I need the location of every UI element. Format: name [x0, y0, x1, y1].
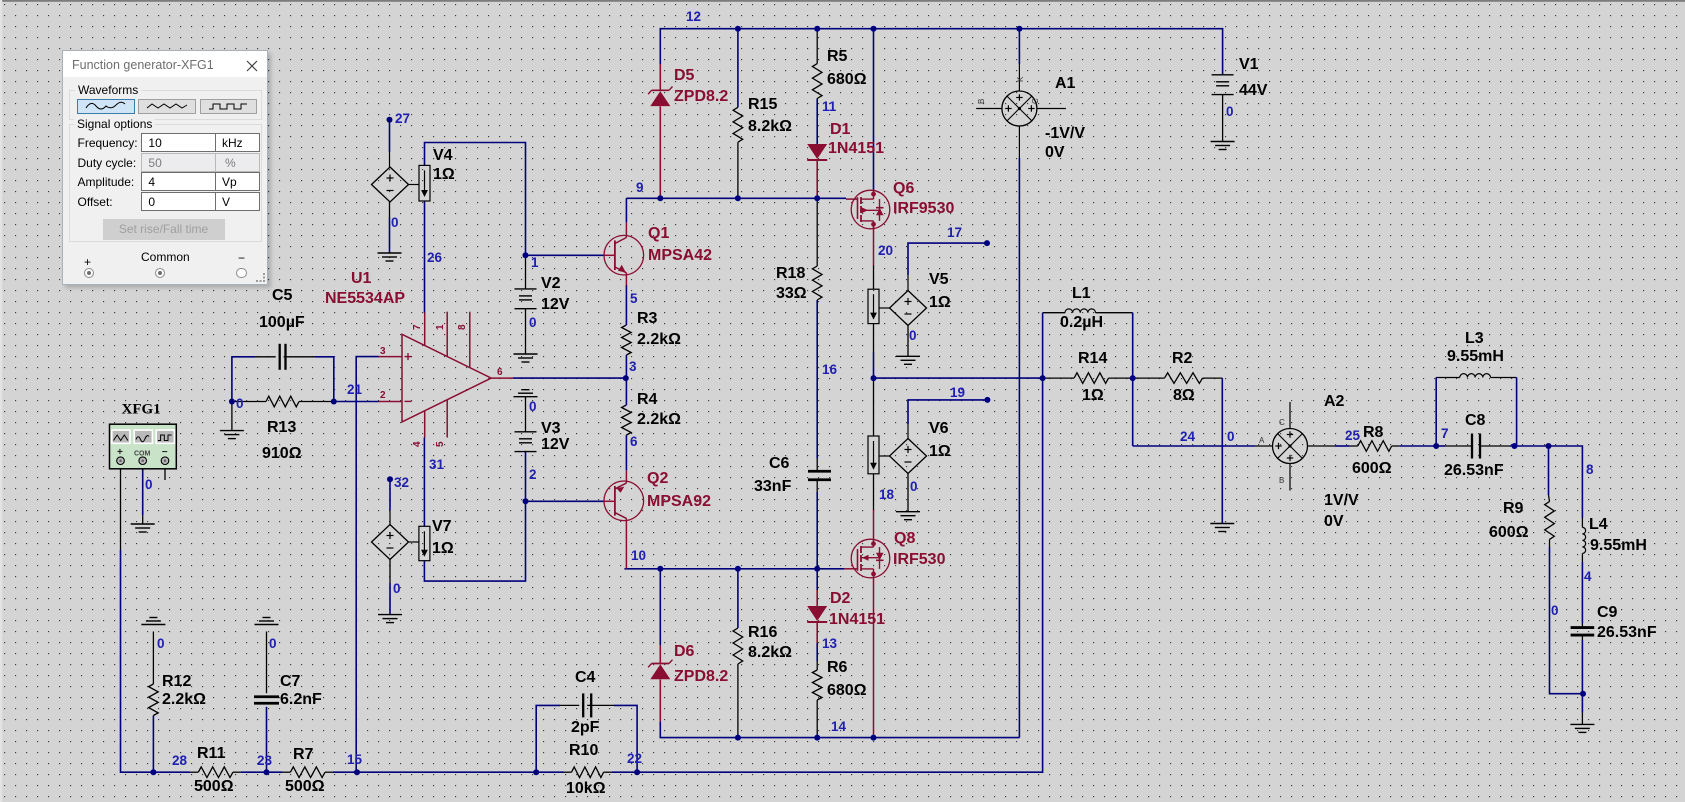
svg-text:14: 14: [831, 719, 847, 734]
svg-text:R10: R10: [569, 742, 598, 759]
svg-text:Q8: Q8: [894, 530, 915, 547]
svg-text:9.55mH: 9.55mH: [1447, 348, 1504, 365]
svg-text:0: 0: [909, 328, 917, 343]
svg-text:8Ω: 8Ω: [1173, 387, 1195, 404]
svg-text:26.53nF: 26.53nF: [1444, 462, 1504, 479]
svg-text:0.2µH: 0.2µH: [1060, 314, 1103, 331]
svg-text:4: 4: [412, 441, 423, 447]
svg-text:R4: R4: [637, 391, 658, 408]
svg-text:D5: D5: [674, 67, 695, 84]
svg-text:19: 19: [950, 385, 965, 400]
svg-text:B: B: [1279, 476, 1284, 485]
svg-text:R7: R7: [293, 746, 314, 763]
svg-text:33nF: 33nF: [754, 478, 792, 495]
svg-text:18: 18: [879, 487, 895, 502]
svg-text:C6: C6: [769, 455, 790, 472]
svg-text:21: 21: [347, 382, 363, 397]
svg-text:0: 0: [269, 636, 277, 651]
svg-text:K: K: [1016, 76, 1025, 82]
svg-text:0: 0: [145, 477, 153, 492]
svg-text:NE5534AP: NE5534AP: [325, 290, 405, 307]
svg-text:C5: C5: [272, 287, 293, 304]
svg-text:0V: 0V: [1324, 513, 1344, 530]
svg-text:2: 2: [529, 467, 537, 482]
svg-text:2: 2: [380, 390, 386, 401]
svg-text:A2: A2: [1324, 393, 1345, 410]
svg-text:C7: C7: [280, 673, 301, 690]
svg-text:7: 7: [1441, 426, 1449, 441]
svg-text:R9: R9: [1503, 500, 1524, 517]
svg-text:C4: C4: [575, 669, 596, 686]
svg-text:1Ω: 1Ω: [1082, 387, 1104, 404]
svg-text:1V/V: 1V/V: [1324, 492, 1359, 509]
svg-text:26: 26: [427, 250, 443, 265]
svg-text:0: 0: [157, 636, 165, 651]
svg-text:0: 0: [236, 396, 244, 411]
svg-text:IRF9530: IRF9530: [893, 200, 954, 217]
svg-text:26.53nF: 26.53nF: [1597, 624, 1657, 641]
svg-text:C9: C9: [1597, 604, 1618, 621]
svg-text:V3: V3: [541, 420, 561, 437]
svg-text:R5: R5: [827, 48, 848, 65]
svg-text:2.2kΩ: 2.2kΩ: [162, 691, 206, 708]
svg-text:10: 10: [631, 548, 646, 563]
svg-text:33Ω: 33Ω: [776, 285, 807, 302]
svg-text:5: 5: [435, 441, 446, 447]
svg-text:9.55mH: 9.55mH: [1590, 537, 1647, 554]
svg-text:0: 0: [529, 399, 537, 414]
svg-text:22: 22: [627, 751, 642, 766]
svg-text:L4: L4: [1589, 516, 1608, 533]
svg-text:9: 9: [636, 180, 644, 195]
svg-text:A: A: [1259, 436, 1265, 445]
svg-text:500Ω: 500Ω: [285, 778, 325, 795]
svg-text:C: C: [1031, 98, 1040, 104]
svg-text:6: 6: [497, 367, 503, 378]
svg-text:910Ω: 910Ω: [262, 445, 302, 462]
svg-text:3: 3: [629, 359, 637, 374]
svg-text:27: 27: [395, 111, 410, 126]
svg-text:ZPD8.2: ZPD8.2: [674, 88, 728, 105]
svg-text:12V: 12V: [541, 296, 570, 313]
svg-text:C: C: [1279, 418, 1285, 427]
svg-text:44V: 44V: [1239, 82, 1268, 99]
svg-text:V5: V5: [929, 271, 949, 288]
svg-text:R15: R15: [748, 96, 777, 113]
svg-text:B: B: [977, 99, 986, 104]
svg-text:0: 0: [910, 479, 918, 494]
svg-text:R11: R11: [197, 745, 226, 762]
svg-text:V1: V1: [1239, 56, 1259, 73]
svg-text:R6: R6: [827, 659, 848, 676]
svg-text:V7: V7: [432, 518, 452, 535]
svg-text:R13: R13: [267, 419, 296, 436]
svg-text:4: 4: [1584, 569, 1592, 584]
svg-text:V6: V6: [929, 420, 949, 437]
svg-text:20: 20: [878, 243, 893, 258]
svg-text:C8: C8: [1465, 412, 1486, 429]
svg-text:L3: L3: [1465, 330, 1484, 347]
svg-text:0: 0: [1551, 603, 1559, 618]
svg-text:1Ω: 1Ω: [929, 294, 951, 311]
svg-text:ZPD8.2: ZPD8.2: [674, 668, 728, 685]
svg-text:Q2: Q2: [647, 470, 668, 487]
svg-text:R3: R3: [637, 310, 658, 327]
svg-text:8: 8: [457, 324, 468, 330]
svg-text:12V: 12V: [541, 436, 570, 453]
svg-text:U1: U1: [351, 270, 372, 287]
svg-text:28: 28: [172, 753, 188, 768]
svg-text:1Ω: 1Ω: [433, 166, 455, 183]
svg-text:0: 0: [529, 315, 537, 330]
svg-text:R18: R18: [776, 265, 805, 282]
svg-text:L1: L1: [1072, 285, 1091, 302]
svg-text:0: 0: [1227, 429, 1235, 444]
svg-text:MPSA42: MPSA42: [648, 247, 712, 264]
svg-text:R12: R12: [162, 673, 191, 690]
svg-text:2.2kΩ: 2.2kΩ: [637, 411, 681, 428]
svg-text:25: 25: [1345, 428, 1361, 443]
svg-text:7: 7: [412, 324, 423, 330]
svg-text:1N4151: 1N4151: [829, 611, 885, 628]
svg-text:8: 8: [1586, 462, 1594, 477]
svg-text:D2: D2: [830, 590, 851, 607]
svg-text:1Ω: 1Ω: [929, 443, 951, 460]
svg-text:1Ω: 1Ω: [432, 540, 454, 557]
svg-text:32: 32: [394, 475, 409, 490]
svg-text:500Ω: 500Ω: [194, 778, 234, 795]
svg-text:D1: D1: [830, 121, 851, 138]
svg-text:17: 17: [947, 225, 962, 240]
svg-text:MPSA92: MPSA92: [647, 493, 711, 510]
svg-text:8.2kΩ: 8.2kΩ: [748, 644, 792, 661]
svg-text:XFG1: XFG1: [122, 402, 161, 418]
svg-text:0: 0: [1226, 104, 1234, 119]
svg-text:1: 1: [435, 324, 446, 330]
svg-text:13: 13: [822, 636, 838, 651]
svg-text:10kΩ: 10kΩ: [566, 780, 606, 797]
svg-text:6.2nF: 6.2nF: [280, 691, 322, 708]
svg-text:D6: D6: [674, 643, 695, 660]
svg-text:V2: V2: [541, 275, 561, 292]
svg-text:11: 11: [822, 99, 837, 114]
svg-text:16: 16: [822, 362, 838, 377]
svg-text:Q1: Q1: [648, 225, 669, 242]
svg-text:8.2kΩ: 8.2kΩ: [748, 118, 792, 135]
svg-text:0: 0: [393, 581, 401, 596]
svg-text:100µF: 100µF: [259, 314, 305, 331]
svg-text:680Ω: 680Ω: [827, 682, 867, 699]
svg-text:+: +: [117, 447, 123, 458]
svg-text:31: 31: [429, 457, 445, 472]
svg-text:3: 3: [380, 346, 386, 357]
svg-text:-1V/V: -1V/V: [1045, 125, 1085, 142]
svg-text:A1: A1: [1055, 75, 1076, 92]
svg-text:0: 0: [391, 215, 399, 230]
svg-text:24: 24: [1180, 429, 1196, 444]
svg-text:R8: R8: [1363, 424, 1384, 441]
svg-text:5: 5: [630, 291, 638, 306]
svg-text:0V: 0V: [1045, 144, 1065, 161]
svg-text:2pF: 2pF: [571, 719, 600, 736]
svg-text:600Ω: 600Ω: [1352, 460, 1392, 477]
svg-text:V4: V4: [433, 147, 453, 164]
svg-text:600Ω: 600Ω: [1489, 524, 1529, 541]
svg-text:2.2kΩ: 2.2kΩ: [637, 331, 681, 348]
svg-text:R14: R14: [1078, 350, 1107, 367]
svg-text:R2: R2: [1172, 350, 1193, 367]
svg-text:Q6: Q6: [893, 180, 914, 197]
svg-text:1N4151: 1N4151: [828, 140, 884, 157]
svg-text:R16: R16: [748, 624, 777, 641]
svg-text:IRF530: IRF530: [893, 551, 946, 568]
svg-text:15: 15: [347, 752, 363, 767]
svg-text:680Ω: 680Ω: [827, 71, 867, 88]
svg-text:12: 12: [686, 9, 701, 24]
svg-text:6: 6: [630, 434, 638, 449]
svg-text:23: 23: [257, 753, 273, 768]
svg-text:1: 1: [531, 255, 539, 270]
